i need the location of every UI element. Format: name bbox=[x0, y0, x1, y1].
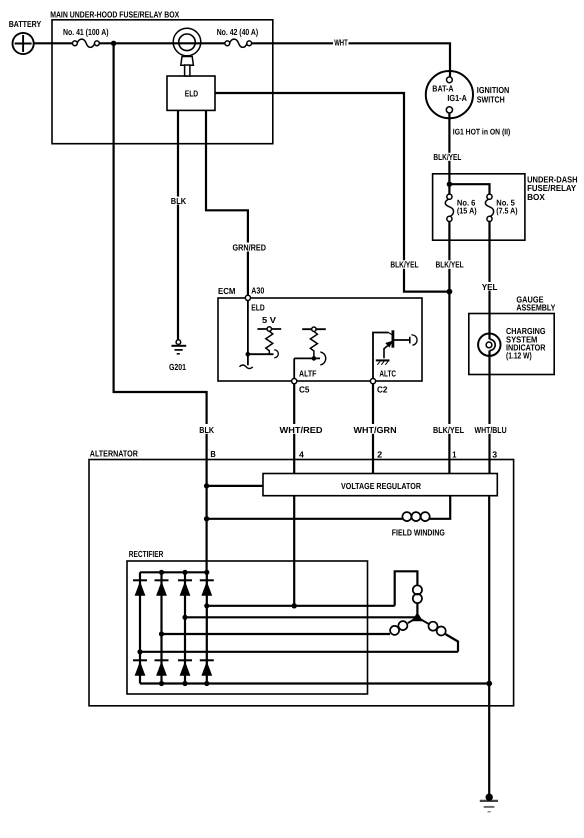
svg-text:BLK/YEL: BLK/YEL bbox=[433, 152, 461, 162]
svg-text:No. 42 (40 A): No. 42 (40 A) bbox=[217, 27, 259, 37]
svg-text:G201: G201 bbox=[169, 362, 186, 372]
svg-text:RECTIFIER: RECTIFIER bbox=[129, 549, 164, 559]
svg-text:WHT/GRN: WHT/GRN bbox=[354, 425, 397, 435]
svg-text:B: B bbox=[210, 449, 215, 459]
svg-text:No. 41 (100 A): No. 41 (100 A) bbox=[63, 27, 109, 37]
svg-text:YEL: YEL bbox=[482, 282, 498, 292]
svg-text:WHT: WHT bbox=[334, 38, 348, 48]
svg-text:BLK/YEL: BLK/YEL bbox=[433, 425, 465, 435]
svg-text:4: 4 bbox=[299, 450, 304, 460]
svg-text:WHT/RED: WHT/RED bbox=[280, 425, 323, 435]
svg-text:BLK: BLK bbox=[199, 425, 214, 435]
svg-text:ALTC: ALTC bbox=[379, 368, 396, 378]
svg-text:3: 3 bbox=[492, 450, 497, 460]
svg-text:A30: A30 bbox=[251, 286, 264, 296]
svg-text:VOLTAGE REGULATOR: VOLTAGE REGULATOR bbox=[341, 481, 422, 491]
svg-text:BOX: BOX bbox=[527, 192, 545, 202]
svg-text:IG1 HOT in ON (II): IG1 HOT in ON (II) bbox=[453, 127, 511, 137]
svg-text:(1.12 W): (1.12 W) bbox=[506, 351, 532, 361]
svg-text:5 V: 5 V bbox=[262, 315, 276, 325]
svg-text:BLK: BLK bbox=[171, 196, 187, 206]
svg-text:(7.5 A): (7.5 A) bbox=[496, 206, 517, 216]
svg-text:(15 A): (15 A) bbox=[457, 206, 477, 216]
svg-text:IG1-A: IG1-A bbox=[447, 93, 467, 103]
svg-text:GRN/RED: GRN/RED bbox=[233, 243, 267, 253]
svg-text:1: 1 bbox=[452, 450, 456, 460]
svg-text:FIELD WINDING: FIELD WINDING bbox=[392, 528, 445, 538]
svg-text:ELD: ELD bbox=[251, 303, 264, 313]
svg-text:C5: C5 bbox=[299, 384, 310, 394]
svg-text:ALTF: ALTF bbox=[299, 368, 317, 378]
svg-text:WHT/BLU: WHT/BLU bbox=[475, 425, 507, 435]
svg-text:SWITCH: SWITCH bbox=[477, 94, 505, 104]
svg-text:BLK/YEL: BLK/YEL bbox=[436, 260, 465, 270]
svg-text:ELD: ELD bbox=[185, 89, 199, 99]
svg-text:BLK/YEL: BLK/YEL bbox=[390, 260, 419, 270]
svg-text:BATTERY: BATTERY bbox=[9, 19, 42, 29]
svg-text:ASSEMBLY: ASSEMBLY bbox=[516, 303, 555, 313]
svg-text:ECM: ECM bbox=[218, 286, 236, 296]
svg-text:C2: C2 bbox=[377, 384, 388, 394]
svg-text:MAIN UNDER-HOOD FUSE/RELAY BOX: MAIN UNDER-HOOD FUSE/RELAY BOX bbox=[50, 9, 179, 19]
svg-text:2: 2 bbox=[377, 450, 382, 460]
svg-text:ALTERNATOR: ALTERNATOR bbox=[90, 449, 139, 459]
